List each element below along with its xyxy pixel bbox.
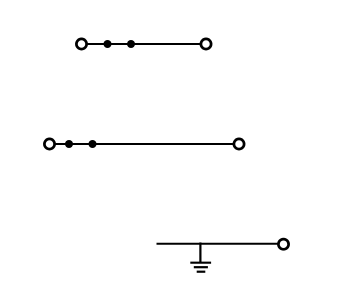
terminal 2 right (open circle) (234, 139, 244, 149)
junction dot level 1 a (104, 40, 112, 48)
wire level 1 (82, 43, 207, 45)
ground (190, 263, 211, 272)
wire level 2 (50, 143, 240, 145)
terminal 1 left (open circle) (76, 39, 86, 49)
wire level 3 (157, 243, 284, 245)
junction dot level 1 b (127, 40, 135, 48)
terminal 3 right (open circle) (278, 239, 288, 249)
junction dot level 2 a (65, 140, 73, 148)
wire to ground (199, 242, 201, 262)
terminal 2 left (open circle) (44, 139, 54, 149)
junction dot level 2 b (89, 140, 97, 148)
terminal 1 right (open circle) (201, 39, 211, 49)
